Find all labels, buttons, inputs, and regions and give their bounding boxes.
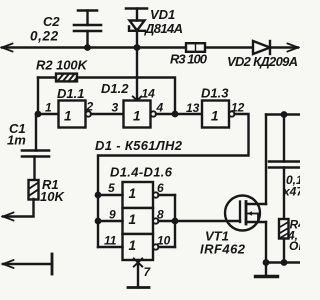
svg-text:7: 7 xyxy=(144,265,152,279)
svg-text:3: 3 xyxy=(112,101,119,115)
svg-text:14: 14 xyxy=(142,87,156,101)
svg-text:Д814А: Д814А xyxy=(144,21,183,36)
svg-text:9: 9 xyxy=(109,208,116,222)
wire input stub pin 11 xyxy=(98,246,123,248)
resistor R1 xyxy=(29,180,39,200)
svg-text:R3 100: R3 100 xyxy=(170,52,208,67)
junction dot R4 bottom xyxy=(281,259,288,266)
resistor R4 xyxy=(279,219,289,239)
pin 7 terminal bar xyxy=(128,286,149,289)
svg-text:R2 100K: R2 100K xyxy=(36,58,89,73)
wire R2 left down to node A xyxy=(37,78,39,115)
inverter D1.2 xyxy=(124,101,157,128)
capacitor C1 xyxy=(22,114,49,179)
arrowhead R1 output xyxy=(3,213,14,221)
pin 7 cross mark xyxy=(134,259,142,267)
pin 14 cross mark xyxy=(133,97,141,105)
svg-text:10K: 10K xyxy=(40,189,65,204)
svg-text:1: 1 xyxy=(129,186,137,201)
inverter D1.1 xyxy=(59,101,92,128)
resistor R2 xyxy=(38,74,77,82)
inverter D1.5 xyxy=(123,208,159,234)
svg-text:10: 10 xyxy=(157,234,171,248)
terminal bar lower output xyxy=(51,254,54,274)
svg-text:1m: 1m xyxy=(7,133,26,148)
capacitor C3 xyxy=(269,115,299,220)
svg-text:13: 13 xyxy=(186,101,200,115)
wire output 6 to bus xyxy=(159,194,176,196)
transistor VT1 xyxy=(225,196,266,231)
wire output 10 to bus xyxy=(159,246,176,248)
svg-text:5: 5 xyxy=(108,181,115,195)
wire R1 to left arrow xyxy=(3,199,34,217)
svg-text:1: 1 xyxy=(133,109,141,124)
svg-text:0,22: 0,22 xyxy=(30,29,59,44)
svg-text:D1.3: D1.3 xyxy=(201,86,229,101)
svg-text:1: 1 xyxy=(129,238,137,253)
arrowhead lower output xyxy=(3,260,14,268)
svg-text:1: 1 xyxy=(45,101,52,115)
svg-text:11: 11 xyxy=(104,234,117,248)
inverter D1.6 xyxy=(123,234,159,260)
junction dot top node xyxy=(281,111,288,118)
svg-text:8: 8 xyxy=(157,208,164,222)
pin 7 stub with cross xyxy=(137,260,139,288)
node A dot xyxy=(35,111,42,118)
inverter D1.4 xyxy=(123,182,159,208)
svg-text:х47: х47 xyxy=(282,185,300,199)
wire gate feed xyxy=(175,220,240,222)
svg-text:6: 6 xyxy=(157,181,164,195)
svg-text:VD2 КД209А: VD2 КД209А xyxy=(227,54,298,69)
ground xyxy=(256,263,278,277)
inverter D1.3 xyxy=(202,101,235,128)
capacitor C2 xyxy=(74,11,101,48)
svg-text:Ом: Ом xyxy=(289,239,300,253)
svg-text:IRF462: IRF462 xyxy=(200,242,246,257)
junction dot pin4 node xyxy=(172,111,179,118)
wire R2 feedback to pin 4 node xyxy=(77,78,175,115)
wire D1.1 out to D1.2 in xyxy=(91,113,124,115)
svg-text:1: 1 xyxy=(211,109,219,124)
wire input stub pin 5 xyxy=(98,194,123,196)
wire lower output xyxy=(3,263,52,265)
svg-text:D1 - К561ЛН2: D1 - К561ЛН2 xyxy=(95,138,183,153)
junction dot source xyxy=(263,259,270,266)
wire bottom node xyxy=(266,261,300,263)
junction dot pin9 xyxy=(95,218,102,225)
wire source down xyxy=(265,222,267,263)
resistor R3 xyxy=(186,43,205,52)
wire output 8 to bus xyxy=(159,220,176,222)
svg-text:4: 4 xyxy=(156,101,164,115)
diode VD2 xyxy=(253,41,270,54)
wire R4 to bottom xyxy=(283,239,285,263)
svg-text:D1.4-D1.6: D1.4-D1.6 xyxy=(110,165,173,180)
wire D1.2 out to D1.3 in xyxy=(156,113,202,115)
arrowhead right end of rail xyxy=(288,44,299,52)
wire node A to D1.1 input xyxy=(38,113,59,115)
wire D1.3 out loop to buffer inputs xyxy=(98,114,249,247)
junction dot output bus xyxy=(172,218,179,225)
svg-text:2: 2 xyxy=(86,100,94,114)
wire input stub pin 9 xyxy=(98,220,123,222)
arrowhead left end of rail xyxy=(2,44,13,52)
svg-text:12: 12 xyxy=(231,101,245,115)
zener diode VD1 xyxy=(126,9,147,48)
junction dot pin5 xyxy=(95,192,102,199)
node dot VD1/rail xyxy=(134,44,141,51)
svg-text:1: 1 xyxy=(129,212,137,227)
wire drain up xyxy=(265,115,267,205)
svg-text:C2: C2 xyxy=(43,14,60,29)
svg-text:D1.2: D1.2 xyxy=(101,81,129,96)
wire power drop to pin 14 xyxy=(136,48,138,101)
node dot C2/rail xyxy=(84,44,91,51)
svg-text:D1.1: D1.1 xyxy=(57,86,84,101)
wire drain top node xyxy=(266,113,300,115)
wire output bus xyxy=(174,195,176,247)
svg-text:1: 1 xyxy=(64,109,72,124)
svg-text:VD1: VD1 xyxy=(150,7,175,22)
wire top supply rail xyxy=(2,46,298,48)
